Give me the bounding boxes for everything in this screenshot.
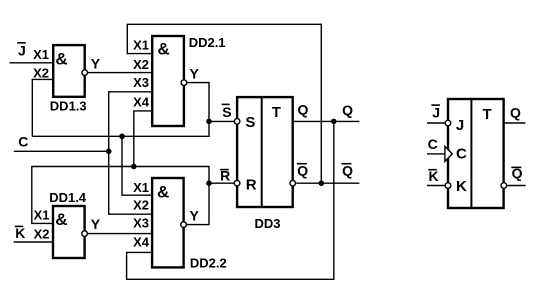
svg-text:DD2.2: DD2.2 bbox=[190, 255, 227, 270]
wire DD2.1 output to S net bbox=[32, 83, 209, 137]
svg-text:J: J bbox=[432, 105, 440, 121]
svg-text:Q: Q bbox=[297, 163, 308, 179]
wire DD1.4 Y to DD2.2 X3 bbox=[88, 233, 152, 235]
svg-text:Q: Q bbox=[342, 163, 353, 179]
svg-text:X1: X1 bbox=[133, 38, 149, 53]
svg-text:K: K bbox=[456, 178, 467, 195]
svg-text:S: S bbox=[245, 114, 255, 131]
wire DD1.3 Y to DD2.1 X2 bbox=[88, 72, 153, 74]
svg-text:J: J bbox=[18, 43, 26, 59]
label R-bar bbox=[220, 168, 230, 184]
svg-text:X1: X1 bbox=[33, 47, 49, 62]
svg-text:X2: X2 bbox=[34, 227, 50, 242]
wire C vertical to DD2.1 X3 and DD2.2 X2 bbox=[109, 92, 153, 214]
dynamic input triangle JK C bbox=[445, 146, 452, 161]
svg-text:K: K bbox=[15, 225, 25, 241]
svg-text:Y: Y bbox=[91, 56, 101, 72]
inversion bubble DD3 R input bbox=[234, 180, 240, 186]
svg-text:Q: Q bbox=[298, 102, 309, 118]
inversion bubble DD3 S input bbox=[234, 119, 240, 125]
label K-bar JK input bbox=[428, 168, 438, 184]
wire DD2.2 output up to R net bbox=[32, 167, 209, 225]
junction node S net to DD3 S bbox=[206, 119, 212, 125]
svg-text:X2: X2 bbox=[133, 57, 149, 72]
svg-text:S: S bbox=[222, 104, 231, 120]
svg-text:C: C bbox=[456, 145, 467, 162]
junction node C net bbox=[106, 149, 112, 155]
svg-text:X3: X3 bbox=[133, 216, 149, 231]
wire J-bar input to DD1.3 X1 bbox=[10, 62, 54, 64]
wire JK C input bbox=[427, 153, 445, 155]
label S-bar bbox=[222, 104, 232, 120]
svg-text:T: T bbox=[272, 104, 281, 121]
wire JK J input bbox=[427, 122, 448, 124]
svg-text:Q: Q bbox=[510, 104, 521, 120]
svg-text:K: K bbox=[429, 168, 439, 184]
svg-text:T: T bbox=[483, 106, 492, 123]
inversion bubble JK K input bbox=[445, 183, 451, 189]
svg-text:Q: Q bbox=[342, 102, 353, 118]
svg-text:&: & bbox=[157, 39, 169, 58]
junction node Q-bar feedback bbox=[319, 180, 325, 186]
svg-text:Y: Y bbox=[190, 208, 200, 224]
wire JK Q output bbox=[504, 122, 526, 124]
inversion bubble JK Q-bar output bbox=[501, 183, 507, 189]
junction node R net to DD3 R bbox=[206, 180, 212, 186]
svg-text:&: & bbox=[55, 210, 67, 229]
label J-bar JK input bbox=[431, 104, 440, 120]
label Q-bar JK output bbox=[511, 165, 522, 181]
svg-text:X4: X4 bbox=[133, 95, 150, 110]
wire C input line bbox=[14, 150, 109, 152]
svg-text:R: R bbox=[246, 176, 257, 193]
JK divider bbox=[470, 99, 472, 208]
wire K-bar input to DD1.4 X2 bbox=[14, 241, 53, 243]
svg-text:X1: X1 bbox=[133, 180, 149, 195]
svg-text:&: & bbox=[157, 182, 169, 201]
inversion bubble DD1.3 output bbox=[82, 70, 88, 76]
inversion bubble DD1.4 output bbox=[82, 231, 88, 237]
gate DD2.2 box bbox=[152, 178, 184, 267]
gate DD2.1 box bbox=[152, 36, 184, 126]
svg-text:X2: X2 bbox=[33, 65, 49, 80]
wire Q-bar output of DD3 bbox=[296, 182, 359, 184]
wire Q-bar feedback top to DD2.1 X1 bbox=[127, 24, 321, 183]
svg-text:DD2.1: DD2.1 bbox=[189, 35, 226, 50]
wire Q output of DD3 bbox=[293, 120, 360, 122]
svg-text:DD1.4: DD1.4 bbox=[49, 190, 87, 205]
DD3 divider bbox=[261, 97, 263, 207]
wire branch to R input of DD3 bbox=[209, 182, 234, 184]
svg-text:DD1.3: DD1.3 bbox=[50, 98, 87, 113]
svg-text:X1: X1 bbox=[34, 208, 50, 223]
wire Q feedback bottom to DD2.2 X4 bbox=[127, 121, 334, 279]
wire DD1.3 X2 from S-loop net bbox=[32, 79, 53, 136]
inversion bubble DD2.1 output bbox=[181, 80, 187, 86]
wire branch down to DD2.2 X1 bbox=[122, 136, 152, 195]
label J-bar input bbox=[17, 42, 26, 59]
label Q-bar output terminal bbox=[341, 163, 353, 179]
label Q-bar near DD3 bbox=[297, 163, 309, 179]
svg-text:X2: X2 bbox=[133, 197, 149, 212]
flip-flop JK box bbox=[448, 99, 504, 208]
wire branch to S input of DD3 bbox=[209, 120, 234, 122]
svg-text:&: & bbox=[55, 49, 67, 68]
svg-text:X4: X4 bbox=[133, 234, 150, 249]
wire JK Q-bar output bbox=[507, 185, 525, 187]
svg-text:C: C bbox=[428, 136, 438, 152]
wire JK K input bbox=[427, 185, 448, 187]
junction node R net at DD2.1 X4 bbox=[131, 164, 137, 170]
flip-flop DD3 box bbox=[237, 97, 293, 207]
junction node Q feedback bbox=[331, 119, 337, 125]
svg-text:C: C bbox=[18, 134, 28, 150]
svg-text:Y: Y bbox=[190, 66, 200, 82]
label K-bar input bbox=[15, 225, 26, 241]
inversion bubble DD3 Q-bar output bbox=[290, 180, 296, 186]
svg-text:J: J bbox=[456, 117, 464, 134]
junction node S loop to DD2.2 X1 bbox=[119, 134, 125, 140]
svg-text:DD3: DD3 bbox=[255, 216, 281, 231]
svg-text:X3: X3 bbox=[133, 75, 149, 90]
inversion bubble DD2.2 output bbox=[181, 222, 187, 228]
wire DD2.1 X4 down to R net bbox=[134, 111, 152, 167]
inversion bubble JK J input bbox=[445, 120, 451, 126]
gate DD1.3 box bbox=[53, 45, 84, 97]
svg-text:Y: Y bbox=[91, 216, 101, 232]
gate DD1.4 box bbox=[53, 206, 85, 258]
